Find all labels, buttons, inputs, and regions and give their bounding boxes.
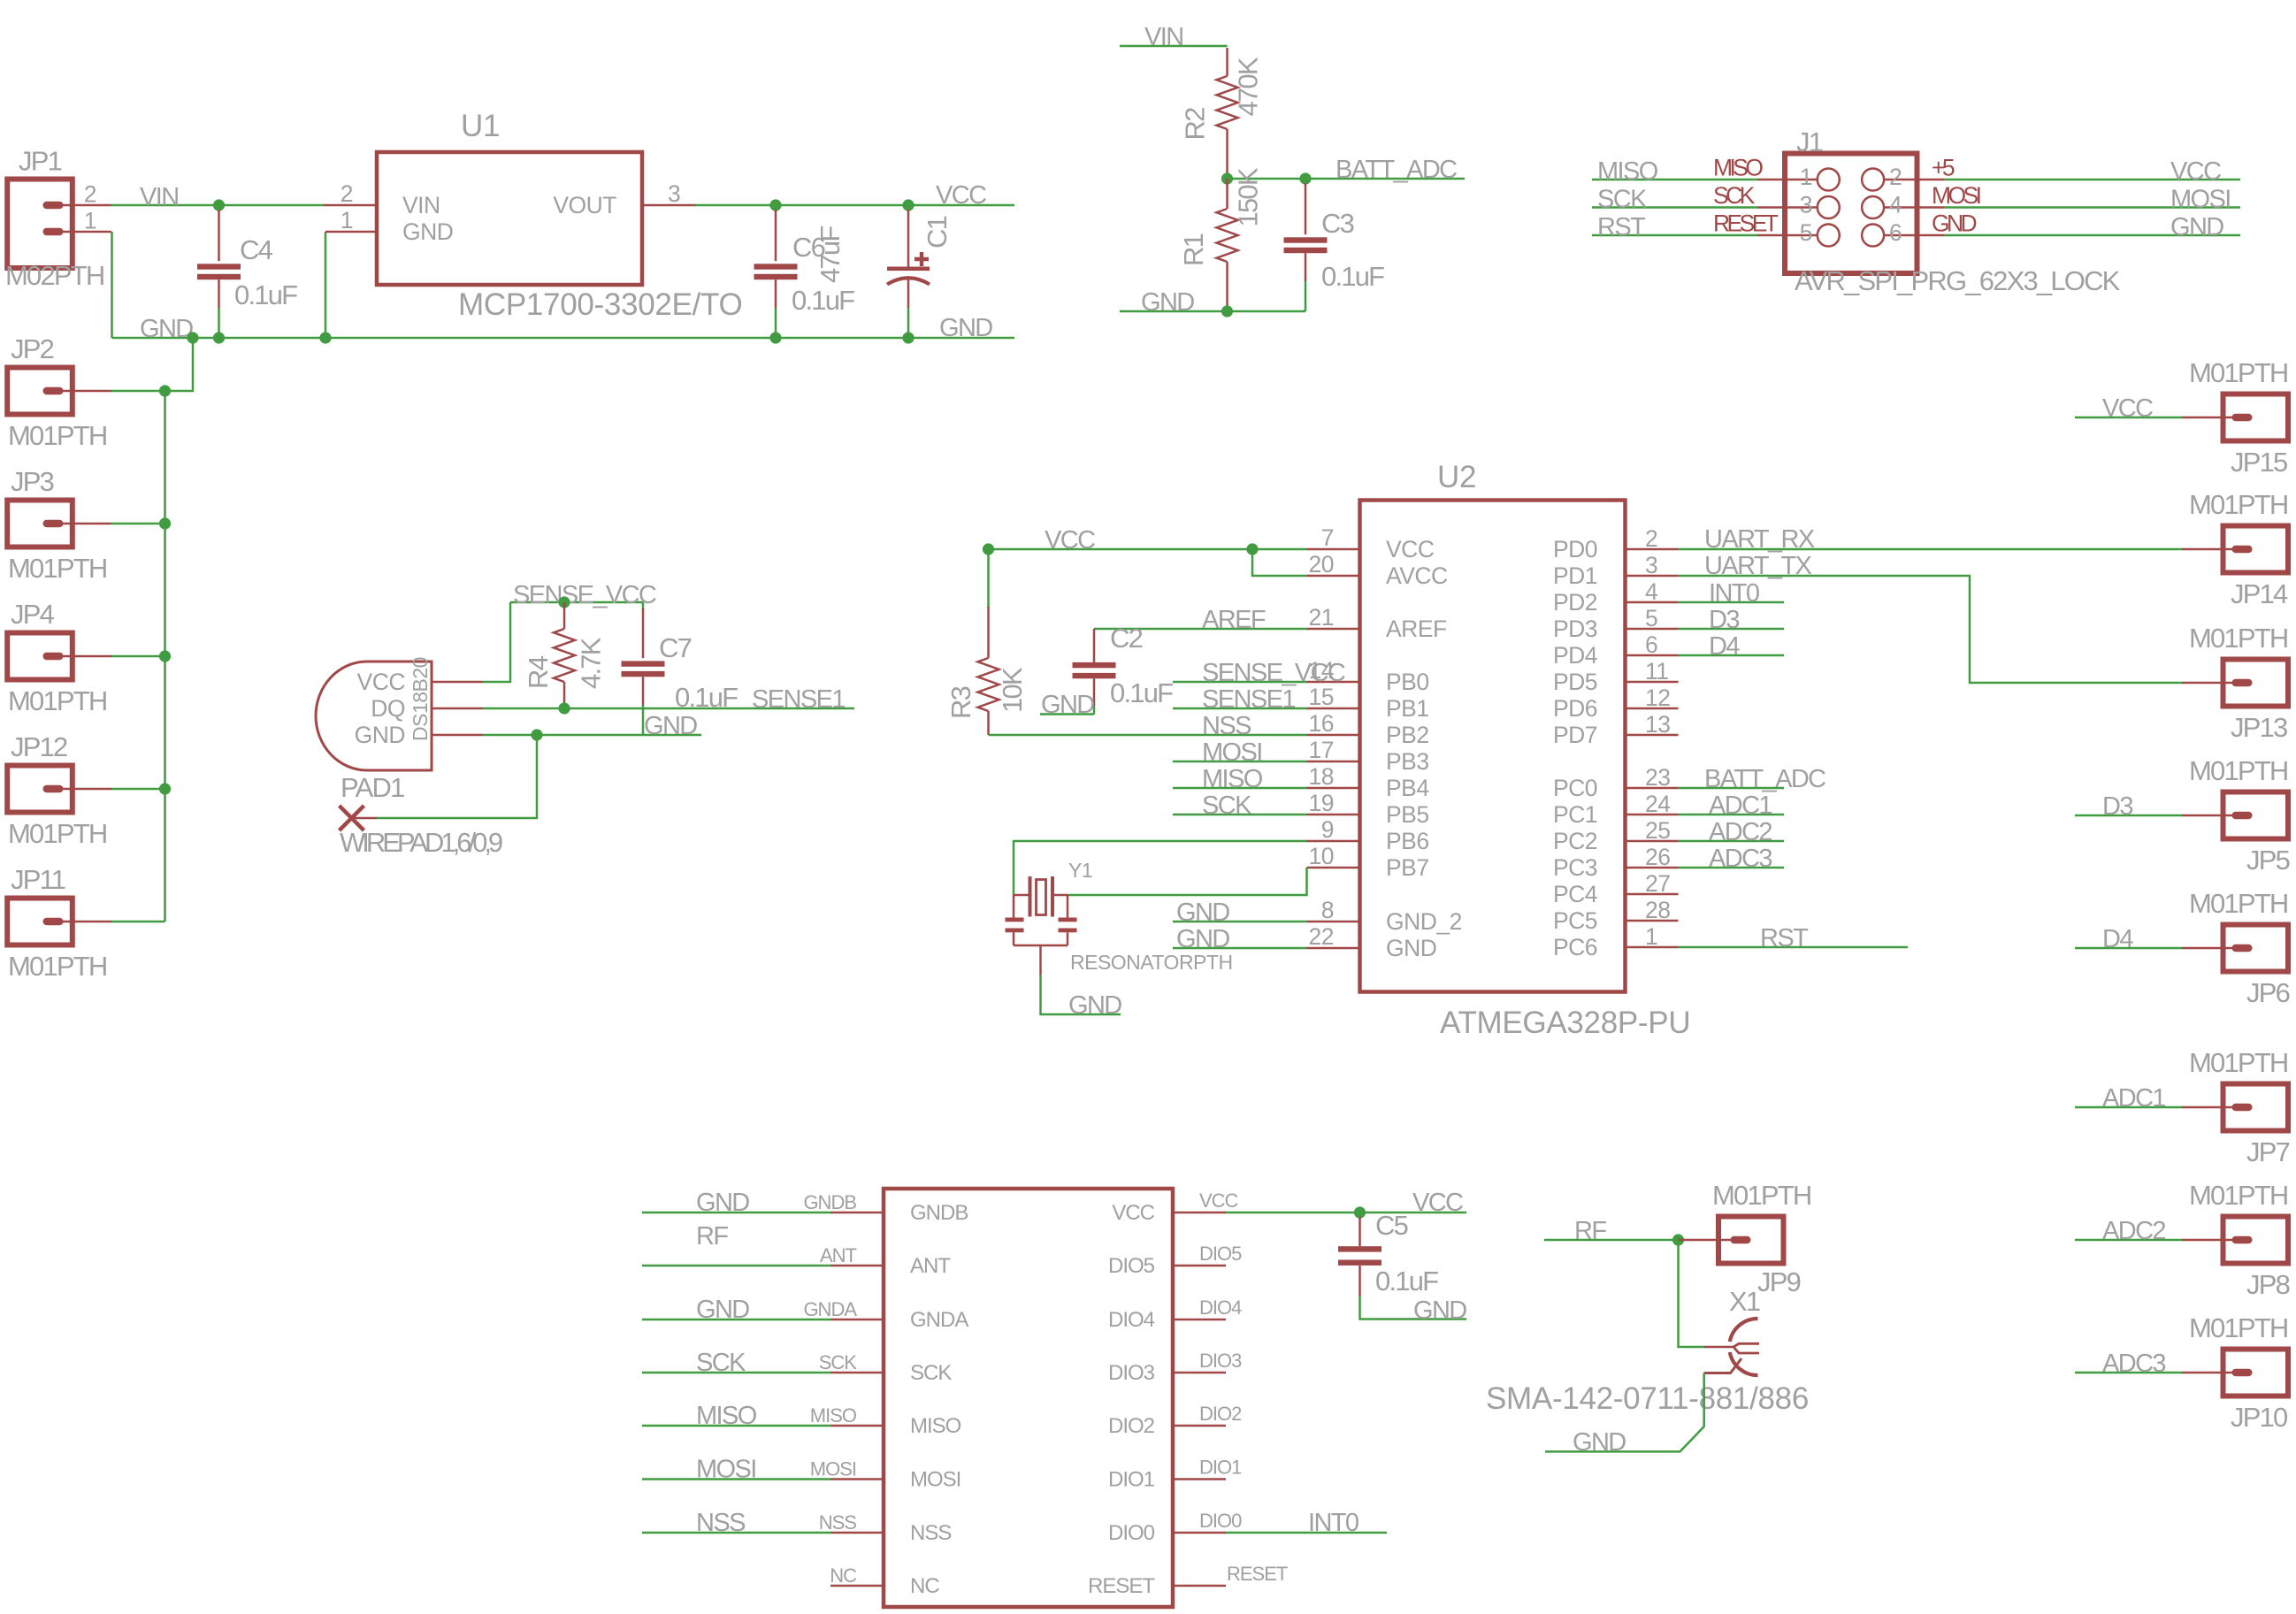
svg-text:INT0: INT0 [1709,579,1759,608]
connector JP12 [7,766,73,813]
svg-text:M01PTH: M01PTH [2189,1180,2288,1211]
wire UART_RX net [1679,548,2183,551]
wire RF net JP9 [1544,1239,1679,1242]
svg-text:SCK: SCK [696,1349,746,1377]
capacitor C3 0.1uF [1305,179,1307,185]
svg-text:VCC: VCC [1412,1189,1463,1217]
node VIN junction C4 [213,199,225,210]
svg-text:47uF: 47uF [815,226,846,283]
svg-text:ADC1: ADC1 [1709,792,1772,820]
wire GND net J1 [1945,234,2241,237]
svg-text:VCC: VCC [357,669,406,695]
svg-text:NC: NC [830,1564,857,1587]
wire VCC net J1 [1945,179,2241,181]
svg-text:27: 27 [1645,870,1670,897]
pin 25 PC2 U2 right [1626,840,1679,843]
capacitor C1 electrolytic 47uF [907,205,910,211]
wire GND net battery [1120,310,1305,313]
wire SCK net U2 [1173,814,1307,816]
svg-text:JP10: JP10 [2231,1402,2288,1433]
wire MOSI net J1 [1945,206,2241,209]
svg-text:C5: C5 [1375,1210,1408,1241]
svg-text:RST: RST [1597,213,1646,241]
pin 13 PD7 U2 right [1626,734,1679,737]
svg-text:M01PTH: M01PTH [2189,755,2288,786]
svg-text:SENSE_VCC: SENSE_VCC [1202,659,1345,687]
svg-text:DIO4: DIO4 [1199,1297,1242,1319]
svg-text:GND: GND [1176,899,1229,927]
wire ADC2 stub U2 [1679,840,1785,843]
svg-text:GND: GND [1041,691,1094,719]
wire INT0 stub U2 [1679,601,1785,604]
wire RST net U2 [1679,946,1909,949]
node junction C5 [1354,1206,1366,1218]
svg-text:RESET: RESET [1088,1574,1155,1598]
capacitor C5 0.1uF [1358,1212,1361,1219]
svg-text:GNDA: GNDA [910,1308,968,1332]
svg-text:J1: J1 [1796,126,1823,157]
connector JP5 [2223,792,2289,839]
svg-text:D3: D3 [1709,606,1739,634]
svg-text:DIO2: DIO2 [1199,1403,1242,1425]
svg-text:SCK: SCK [910,1361,952,1385]
svg-text:MOSI: MOSI [910,1468,960,1492]
wire SENSE1 net DQ [432,708,483,710]
svg-text:PC4: PC4 [1553,881,1597,907]
svg-text:PD5: PD5 [1553,669,1597,695]
svg-text:8: 8 [1321,897,1334,923]
svg-text:PD2: PD2 [1553,589,1597,616]
svg-text:1: 1 [341,207,353,233]
svg-text:RF: RF [696,1222,728,1251]
svg-text:SCK: SCK [1597,186,1648,214]
svg-text:R1: R1 [1178,233,1209,266]
svg-text:SENSE_VCC: SENSE_VCC [513,581,656,609]
svg-text:PB2: PB2 [1386,722,1429,748]
svg-text:R2: R2 [1180,108,1211,141]
wire UART_TX net [1679,576,2183,683]
wire RST net J1 [1592,234,1757,237]
svg-text:JP3: JP3 [11,466,54,497]
wire VIN net top [1120,45,1228,48]
svg-text:6: 6 [1889,219,1902,246]
svg-text:20: 20 [1309,551,1334,578]
pin MOSI module left [830,1478,884,1480]
connector JP8 [2223,1217,2289,1264]
svg-text:GNDA: GNDA [803,1298,857,1320]
svg-text:JP12: JP12 [11,731,67,762]
sensor DS18B20 outline [316,662,432,770]
svg-text:PB1: PB1 [1386,695,1429,722]
node junction JP12 [159,783,171,794]
svg-text:BATT_ADC: BATT_ADC [1336,156,1457,184]
svg-text:AVR_SPI_PRG_62X3_LOCK: AVR_SPI_PRG_62X3_LOCK [1795,265,2121,296]
svg-text:RST: RST [1760,924,1809,952]
svg-text:AREF: AREF [1202,606,1266,634]
svg-text:MOSI: MOSI [2170,186,2231,214]
svg-text:21: 21 [1309,604,1334,631]
node junction JP3 [159,517,171,529]
svg-text:NSS: NSS [1202,712,1251,740]
svg-text:JP7: JP7 [2246,1136,2290,1167]
svg-text:M01PTH: M01PTH [8,553,107,584]
svg-text:MOSI: MOSI [696,1456,756,1484]
svg-text:11: 11 [1645,658,1669,685]
svg-text:DIO3: DIO3 [1199,1350,1242,1372]
wire RF to X1 [1679,1240,1704,1347]
svg-text:AVCC: AVCC [1386,562,1448,589]
svg-text:GND: GND [355,722,405,748]
svg-text:2: 2 [84,181,96,208]
svg-text:MOSI: MOSI [1202,738,1262,767]
pin 23 PC0 U2 right [1626,787,1679,790]
svg-text:MISO: MISO [696,1402,757,1430]
svg-text:4: 4 [1889,192,1902,218]
wire GND net module [642,1319,830,1321]
svg-text:SENSE1: SENSE1 [1202,685,1295,714]
svg-text:M01PTH: M01PTH [2189,489,2288,520]
svg-text:JP2: JP2 [11,333,54,364]
svg-text:PC3: PC3 [1553,854,1597,881]
pin GNDB module left [830,1212,884,1214]
svg-text:JP15: JP15 [2231,447,2287,478]
wire ADC3 stub U2 [1679,867,1785,869]
node GND junction C4 [213,332,225,343]
svg-text:R4: R4 [523,655,554,689]
pin VCC module right [1173,1212,1226,1214]
wire MOSI net U2 [1173,761,1307,763]
svg-text:U2: U2 [1437,460,1476,494]
voltage regulator U1 MCP1700 [377,152,642,285]
pin NC module left [830,1585,884,1587]
node junction JP2 [159,385,171,396]
wire D4 stub U2 [1679,654,1785,657]
node junction R2 R1 [1221,172,1233,184]
svg-text:VCC: VCC [1045,526,1095,555]
svg-text:15: 15 [1309,684,1334,710]
pin 15 PB1 U2 left [1307,708,1360,710]
svg-text:PD6: PD6 [1553,695,1597,722]
wire D3 net JP5 [2075,815,2182,817]
wire GND_2 stub U2 [1173,921,1307,923]
wire GND rail [112,337,1015,340]
svg-text:GNDB: GNDB [803,1191,856,1213]
svg-text:VCC: VCC [936,181,986,210]
pin 27 PC4 U2 right [1626,893,1679,896]
wire GND net X1 [1545,1373,1704,1452]
svg-text:0.1uF: 0.1uF [1321,261,1384,292]
svg-text:D4: D4 [1709,632,1740,661]
svg-text:28: 28 [1645,897,1670,923]
svg-text:DIO1: DIO1 [1108,1468,1155,1492]
svg-text:MISO: MISO [910,1414,961,1438]
svg-text:M01PTH: M01PTH [1712,1180,1811,1211]
wire ADC3 net JP10 [2075,1372,2182,1374]
svg-text:NC: NC [910,1574,939,1598]
wire GND stub U2 [1173,947,1307,950]
wire MISO net U2 [1173,787,1307,790]
resistor R1 150K [1226,179,1228,209]
svg-text:AREF: AREF [1386,616,1447,642]
svg-text:PD3: PD3 [1553,616,1597,642]
node VCC junction C6 [769,199,781,210]
pin 18 PB4 U2 left [1307,787,1360,790]
svg-text:0.1uF: 0.1uF [1110,677,1173,708]
connector JP13 [2223,660,2289,707]
wire GND net DS18B20 [432,734,483,737]
pin 4 PD2 U2 right [1626,601,1679,604]
svg-text:MISO: MISO [1713,155,1763,181]
svg-text:MISO: MISO [1597,157,1658,186]
svg-text:MISO: MISO [810,1404,857,1427]
pin 8 GND_2 U2 left [1307,921,1360,923]
node junction PAD1 link [531,729,542,740]
svg-text:GND: GND [2170,213,2223,241]
wire DS18B20 VCC to SENSE_VCC [432,681,483,684]
svg-text:DIO2: DIO2 [1108,1414,1155,1438]
svg-text:5: 5 [1645,605,1657,631]
pin NSS module left [830,1532,884,1534]
node junction R1 GND [1221,305,1233,317]
pin 1 PC6 U2 right [1626,946,1679,949]
pin DIO0 module right [1173,1532,1226,1534]
wire AVCC link [1252,549,1307,576]
node VCC junction C1 [902,199,914,210]
pin 5 PD3 U2 right [1626,628,1679,631]
svg-text:17: 17 [1309,737,1334,763]
svg-text:PC1: PC1 [1553,801,1597,828]
svg-text:GND: GND [1386,935,1436,961]
svg-text:D3: D3 [2102,792,2132,821]
svg-text:ANT: ANT [910,1254,951,1278]
svg-text:4.7K: 4.7K [576,637,607,689]
svg-text:JP14: JP14 [2231,578,2288,609]
svg-text:WIREPAD1,6/0,9: WIREPAD1,6/0,9 [340,827,502,858]
svg-text:4: 4 [1645,578,1657,605]
svg-text:5: 5 [1800,219,1812,246]
svg-text:M01PTH: M01PTH [2189,1047,2288,1078]
svg-text:RESET: RESET [1713,210,1779,237]
svg-text:JP8: JP8 [2246,1269,2290,1300]
svg-text:10: 10 [1309,843,1334,869]
svg-text:DQ: DQ [371,695,405,722]
wire SENSE_VCC rail [510,601,643,604]
wire GND to JP column link [165,338,194,391]
svg-text:GND: GND [1141,288,1194,317]
svg-text:GND: GND [402,218,453,245]
svg-text:GND: GND [1932,210,1977,237]
svg-text:0.1uF: 0.1uF [792,285,854,316]
svg-text:PC2: PC2 [1553,828,1597,854]
svg-text:6: 6 [1645,631,1657,658]
connector JP2 [7,368,73,415]
connector JP9 [1718,1217,1784,1264]
node GND junction C1 [902,332,914,343]
svg-text:C2: C2 [1110,623,1143,654]
svg-text:VCC: VCC [1386,536,1435,562]
svg-text:M02PTH: M02PTH [5,260,104,291]
wire NSS net [989,734,1307,737]
svg-text:10K: 10K [997,667,1028,713]
svg-text:M01PTH: M01PTH [8,818,107,849]
connector JP3 [7,501,73,547]
svg-text:PC5: PC5 [1553,907,1597,934]
node junction R3 VCC [983,543,994,555]
svg-text:DIO4: DIO4 [1108,1308,1155,1332]
wire BATT_ADC net [1228,178,1466,180]
svg-text:24: 24 [1645,791,1670,817]
svg-text:JP9: JP9 [1757,1266,1801,1297]
wire JP column vertical bus [164,391,166,922]
svg-text:Y1: Y1 [1068,859,1092,882]
wire RF net module [642,1265,830,1267]
wire ADC1 net JP7 [2075,1106,2182,1109]
pin DIO3 module right [1173,1372,1226,1374]
svg-text:VIN: VIN [140,183,179,211]
pin 20 AVCC U2 left [1307,575,1360,578]
svg-text:GND_2: GND_2 [1386,908,1462,935]
wire MISO net module [642,1425,830,1427]
RF module U3 RFM69 [884,1189,1173,1607]
connector JP10 [2223,1350,2289,1396]
svg-text:PB4: PB4 [1386,775,1429,801]
svg-text:PAD1: PAD1 [341,772,404,803]
svg-text:PB7: PB7 [1386,854,1429,881]
pin DIO4 module right [1173,1319,1226,1321]
svg-text:DIO5: DIO5 [1108,1254,1155,1278]
node GND junction C6 [769,332,781,343]
wire PB6 to resonator [1014,841,1307,895]
wire VCC net U2 [989,548,1307,551]
wire SENSE_VCC net U2 [1173,681,1307,684]
wire MISO net J1 [1592,179,1757,181]
svg-text:JP6: JP6 [2246,977,2290,1008]
svg-text:M01PTH: M01PTH [8,420,107,451]
svg-text:VCC: VCC [2170,157,2221,186]
wire GND net module [642,1212,830,1214]
pin GNDA module left [830,1319,884,1321]
svg-text:3: 3 [1800,192,1812,218]
svg-text:DIO3: DIO3 [1108,1361,1155,1385]
svg-text:3: 3 [668,180,680,207]
wire INT0 net module [1226,1532,1387,1534]
svg-text:ATMEGA328P-PU: ATMEGA328P-PU [1440,1006,1690,1040]
node junction JP4 [159,650,171,662]
svg-text:PB6: PB6 [1386,828,1429,854]
node junction AVCC [1246,543,1258,555]
svg-text:UART_RX: UART_RX [1704,525,1815,554]
node junction R4 bottom [558,702,570,714]
svg-text:PB3: PB3 [1386,748,1429,775]
svg-text:GND: GND [140,315,193,343]
svg-text:GND: GND [939,314,992,342]
svg-text:9: 9 [1321,816,1334,843]
svg-text:GND: GND [1176,925,1229,953]
svg-text:NSS: NSS [910,1521,951,1545]
svg-text:JP4: JP4 [11,599,55,630]
connector JP15 [2223,394,2289,441]
wire VCC net module [1226,1212,1466,1214]
svg-text:16: 16 [1309,710,1334,737]
svg-text:C3: C3 [1321,208,1354,239]
svg-text:26: 26 [1645,844,1670,870]
svg-text:M01PTH: M01PTH [2189,888,2288,919]
svg-text:PD0: PD0 [1553,536,1597,562]
wire PB7 to resonator [1068,868,1307,895]
svg-text:JP1: JP1 [19,146,62,177]
svg-text:INT0: INT0 [1308,1509,1358,1537]
svg-text:M01PTH: M01PTH [2189,623,2288,654]
svg-text:MOSI: MOSI [1932,182,1980,209]
node junction RF [1672,1234,1684,1245]
svg-text:VCC: VCC [2102,394,2153,423]
antenna connector X1 SMA [1704,1346,1733,1349]
wire D4 net JP6 [2075,947,2182,950]
pin 12 PD6 U2 right [1626,708,1679,710]
svg-text:RF: RF [1574,1217,1606,1245]
svg-text:12: 12 [1645,685,1670,711]
wire JP1 pin1 to GND rail [111,232,113,338]
svg-text:JP11: JP11 [11,864,65,895]
pin 19 PB5 U2 left [1307,814,1360,816]
svg-text:3: 3 [1645,552,1657,578]
svg-text:MOSI: MOSI [810,1458,856,1480]
svg-text:2: 2 [341,180,353,207]
capacitor C7 0.1uF [642,602,645,610]
pin 22 GND U2 left [1307,947,1360,950]
pin RESET module right [1173,1585,1226,1587]
wire AREF net [1094,628,1307,631]
wire NSS net module [642,1532,830,1534]
pin 16 PB2 U2 left [1307,734,1360,737]
svg-text:PC6: PC6 [1553,934,1597,960]
connector JP14 [2223,526,2289,573]
svg-text:C4: C4 [240,234,273,265]
svg-text:ADC2: ADC2 [1709,818,1772,846]
svg-text:GND: GND [696,1296,749,1324]
microcontroller U2 ATMEGA328P-PU [1360,501,1626,992]
wire SCK net J1 [1592,206,1757,209]
pin 6 PD4 U2 right [1626,654,1679,657]
svg-text:MISO: MISO [1202,765,1263,793]
pin 11 PD5 U2 right [1626,681,1679,684]
svg-text:GND: GND [696,1189,749,1217]
pin 7 VCC U2 left [1307,548,1360,551]
svg-text:RESONATORPTH: RESONATORPTH [1070,951,1233,974]
connector JP7 [2223,1084,2289,1131]
svg-text:VCC: VCC [1112,1201,1154,1225]
svg-text:13: 13 [1645,711,1670,738]
svg-text:NSS: NSS [819,1511,857,1534]
pin 17 PB3 U2 left [1307,761,1360,763]
svg-text:GND: GND [1573,1428,1626,1457]
svg-text:DIO0: DIO0 [1108,1521,1155,1545]
svg-text:NSS: NSS [696,1509,746,1537]
svg-text:PD1: PD1 [1553,562,1597,589]
svg-text:22: 22 [1309,923,1334,950]
node junction R4 top [558,596,570,608]
svg-text:VOUT: VOUT [553,192,616,218]
svg-text:SENSE1: SENSE1 [752,685,845,714]
wire PAD1 to GND [377,735,537,818]
svg-text:GNDB: GNDB [910,1201,968,1225]
svg-text:GND: GND [644,712,697,740]
svg-text:1: 1 [1800,164,1812,190]
pin 24 PC1 U2 right [1626,814,1679,816]
svg-text:SMA-142-0711-881/886: SMA-142-0711-881/886 [1486,1381,1809,1416]
capacitor C4 [218,205,220,211]
svg-text:DS18B20: DS18B20 [409,657,432,741]
